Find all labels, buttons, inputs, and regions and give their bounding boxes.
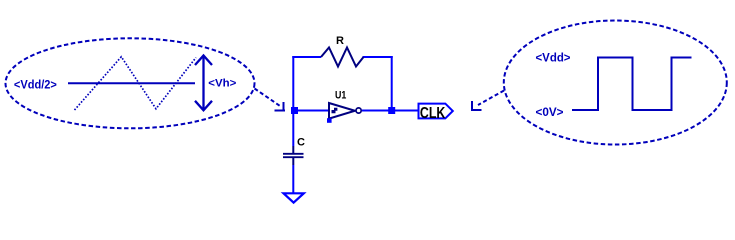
- svg-text:CLK: CLK: [420, 105, 446, 122]
- annotation ellipse right: [504, 21, 727, 145]
- square waveform: [572, 58, 692, 111]
- svg-text:<0V>: <0V>: [536, 105, 564, 119]
- average level line: [68, 82, 195, 84]
- dashed pointer arrow from right ellipse: [471, 91, 504, 111]
- svg-text:R: R: [336, 35, 344, 47]
- U1 output bubble: [356, 108, 361, 113]
- resistor R: [321, 48, 364, 67]
- double arrow Vh: [195, 56, 212, 111]
- node B junction (output): [388, 107, 395, 114]
- ground: [284, 193, 304, 202]
- CLK port tag: [419, 104, 453, 119]
- wire: top loop right horizontal: [363, 56, 393, 58]
- wire: to CLK tag: [392, 110, 419, 112]
- U1 hysteresis mark: [332, 108, 338, 113]
- svg-text:C: C: [297, 136, 305, 148]
- wire: right vertical (resistor to output node): [391, 56, 393, 111]
- wire: inverter input: [293, 110, 329, 112]
- svg-text:U1: U1: [335, 90, 346, 102]
- wire: top loop left horizontal: [292, 56, 321, 58]
- annotation ellipse left: [6, 38, 255, 128]
- svg-text:<Vdd/2>: <Vdd/2>: [14, 77, 57, 91]
- capacitor C top stub: [292, 146, 294, 153]
- svg-text:<Vdd>: <Vdd>: [536, 50, 571, 64]
- triangle waveform (dotted): [75, 57, 197, 110]
- wire: left vertical (node to top): [292, 56, 294, 146]
- U1 origin pin square: [327, 118, 332, 123]
- capacitor C plates: [283, 153, 304, 155]
- capacitor C bottom stub: [292, 158, 294, 165]
- wire: inverter output: [362, 110, 392, 112]
- op-amp / inverter U1 triangle: [329, 103, 355, 119]
- svg-text:<Vh>: <Vh>: [208, 77, 236, 89]
- dashed pointer arrow from left ellipse: [255, 89, 286, 112]
- wire: capacitor to ground: [292, 165, 294, 193]
- node A junction (input): [291, 107, 298, 114]
